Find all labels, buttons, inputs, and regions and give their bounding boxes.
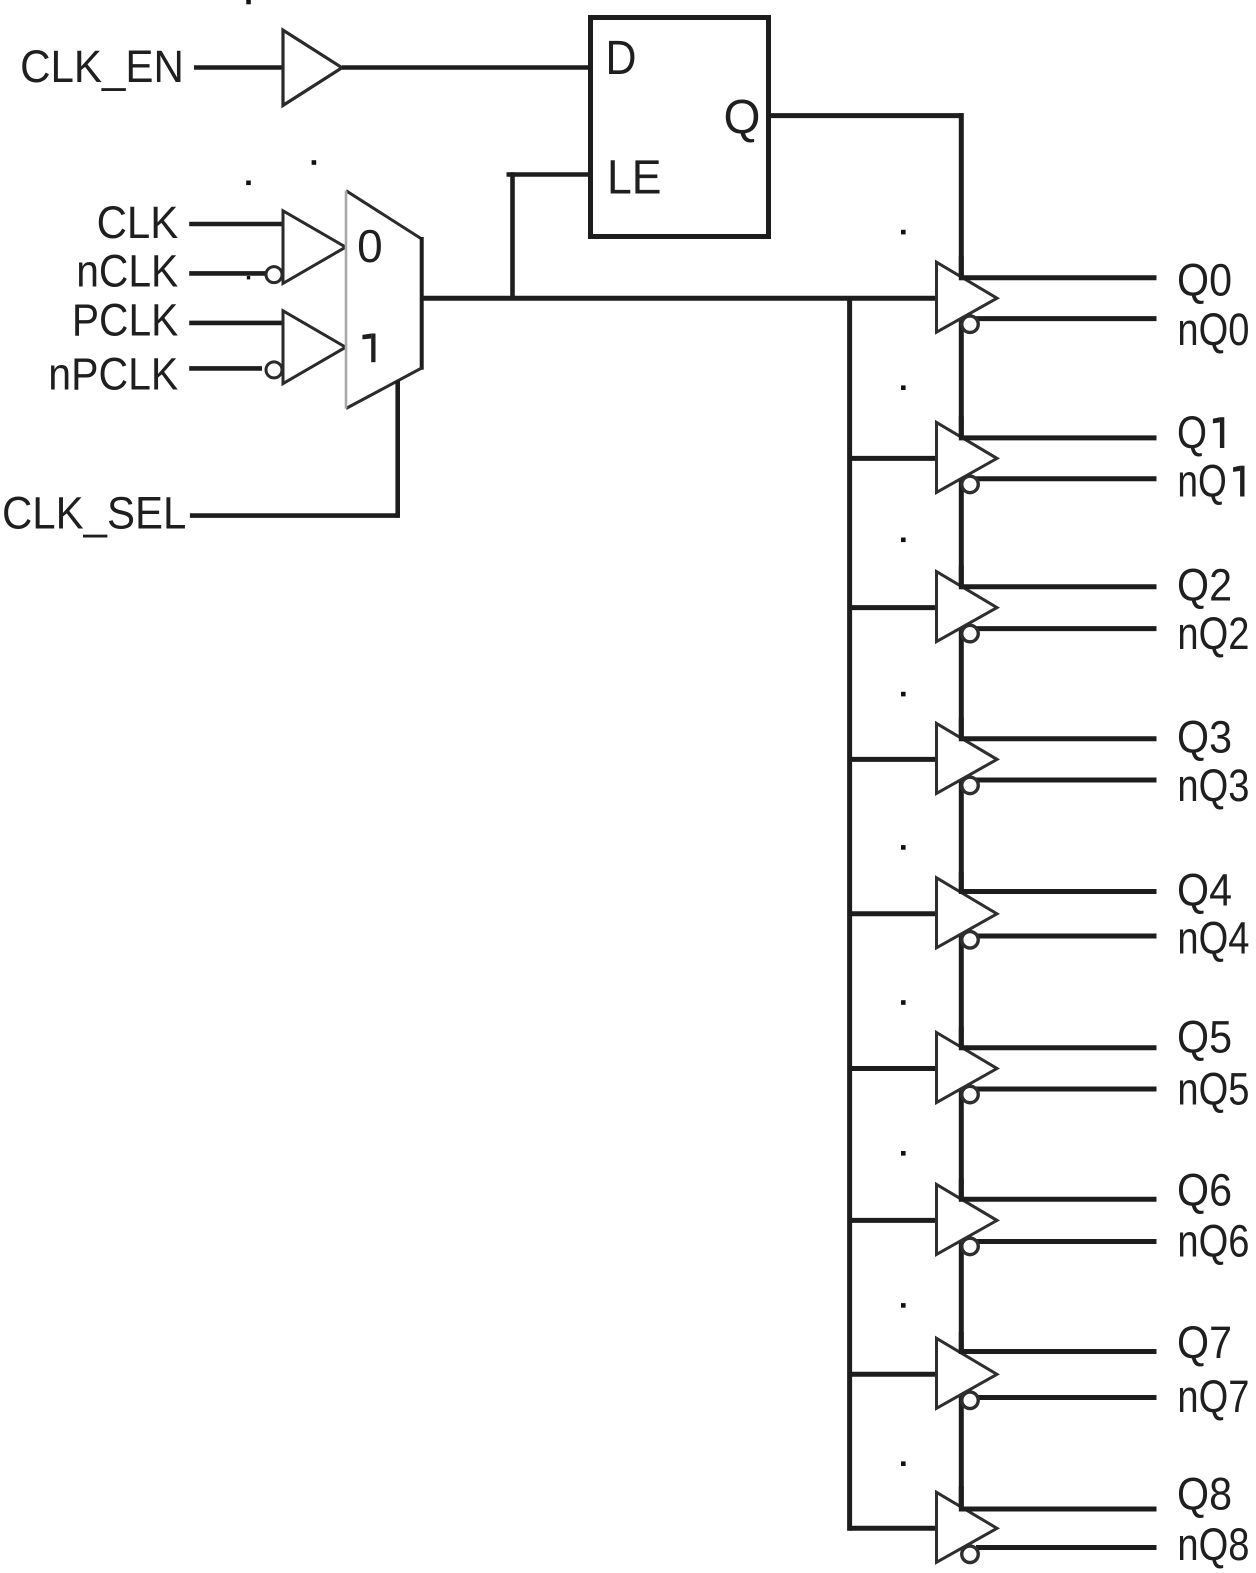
wire: Q6 output line xyxy=(964,1197,1157,1202)
svg-text:Q7: Q7 xyxy=(1177,1317,1232,1368)
output buffer U8 (Q5/nQ5 driver) xyxy=(937,1027,998,1103)
svg-text:Q3: Q3 xyxy=(1177,712,1232,763)
svg-text:nQ8: nQ8 xyxy=(1177,1519,1249,1570)
svg-text:nQ: nQ xyxy=(1177,456,1226,507)
inversion bubble on nQ0 output xyxy=(962,316,979,333)
wire: CLK_SEL horizontal xyxy=(190,513,398,518)
wire: input stub to output buffer U11 xyxy=(850,1526,937,1531)
output buffer U4 (Q1/nQ1 driver) xyxy=(937,416,998,492)
inversion bubble on nQ7 output xyxy=(962,1392,979,1409)
svg-text:nQ4: nQ4 xyxy=(1177,913,1249,964)
mux port label 1 xyxy=(362,334,375,363)
wire: input stub to output buffer U9 xyxy=(850,1218,937,1223)
svg-text:CLK: CLK xyxy=(97,197,179,248)
svg-text:D: D xyxy=(606,32,637,85)
wire: nQ4 output line xyxy=(976,934,1157,939)
wire: Q8 output line xyxy=(964,1507,1157,1512)
svg-text:Q: Q xyxy=(1177,407,1207,458)
svg-text:nQ5: nQ5 xyxy=(1177,1064,1249,1115)
wire: nQ8 output line xyxy=(976,1545,1157,1550)
buffer U1 (CLK_EN buffer) xyxy=(283,30,342,105)
wire: nQ1 output line xyxy=(976,476,1157,481)
wire: CLK input xyxy=(189,222,283,227)
wire: Q3 output line xyxy=(964,736,1157,741)
wire: left distribution bus xyxy=(847,298,852,1531)
svg-text:Q: Q xyxy=(724,92,761,145)
svg-text:Q0: Q0 xyxy=(1177,254,1232,305)
wire: nQ5 output line xyxy=(976,1087,1157,1092)
pin label Q1 xyxy=(1177,407,1224,458)
svg-text:CLK_EN: CLK_EN xyxy=(20,41,184,92)
wire: Q7 output line xyxy=(964,1349,1157,1354)
wire: Q2 output line xyxy=(964,584,1157,589)
inversion bubble on nQ4 output xyxy=(962,932,979,949)
output buffer U7 (Q4/nQ4 driver) xyxy=(937,872,998,948)
wire: input stub to output buffer U10 xyxy=(850,1372,937,1377)
wire: latch Q output xyxy=(769,113,964,118)
svg-text:Q8: Q8 xyxy=(1177,1469,1232,1520)
svg-text:Q6: Q6 xyxy=(1177,1165,1232,1216)
output buffer U9 (Q6/nQ6 driver) xyxy=(937,1178,998,1254)
wire: input stub to output buffer U5 xyxy=(850,605,937,610)
input buffer U0a (CLK/nCLK receiver) xyxy=(266,211,346,284)
svg-text:nQ6: nQ6 xyxy=(1177,1216,1249,1267)
input buffer U0b (PCLK/nPCLK receiver) xyxy=(266,311,346,384)
wire: nPCLK input xyxy=(189,366,262,371)
svg-text:Q4: Q4 xyxy=(1177,865,1232,916)
output buffer U3 (Q0/nQ0 driver) xyxy=(937,256,998,332)
wire: Q5 output line xyxy=(964,1045,1157,1050)
wire: input stub to output buffer U6 xyxy=(850,757,937,762)
wire: CLK_EN input xyxy=(194,65,283,70)
wire: input stub to output buffer U4 xyxy=(850,456,937,461)
svg-text:Q5: Q5 xyxy=(1177,1012,1232,1063)
inversion bubble on nQ1 output xyxy=(962,476,979,493)
wire: Q vertical distribution bus xyxy=(959,113,964,1508)
output buffer U6 (Q3/nQ3 driver) xyxy=(937,717,998,793)
svg-text:nQ7: nQ7 xyxy=(1177,1371,1249,1422)
svg-text:0: 0 xyxy=(357,220,383,272)
svg-text:nPCLK: nPCLK xyxy=(48,348,178,399)
wire: mux output clock line xyxy=(422,296,937,301)
wire: Q4 output line xyxy=(964,889,1157,894)
wire: PCLK input xyxy=(189,321,283,326)
svg-text:nCLK: nCLK xyxy=(76,245,178,296)
svg-text:CLK_SEL: CLK_SEL xyxy=(2,487,186,538)
wire: nQ0 output line xyxy=(976,316,1157,321)
svg-text:PCLK: PCLK xyxy=(72,295,178,346)
wire: CLK_SEL vertical to mux select xyxy=(395,381,400,518)
inversion bubble on nQ6 output xyxy=(962,1238,979,1255)
inversion bubble on nQ2 output xyxy=(962,625,979,642)
wire: LE horizontal xyxy=(507,172,591,177)
output buffer U10 (Q7/nQ7 driver) xyxy=(937,1332,998,1408)
mux M1 (clock select mux) xyxy=(346,191,422,409)
output buffer U11 (Q8/nQ8 driver) xyxy=(937,1486,998,1562)
wire: nQ7 output line xyxy=(976,1395,1157,1400)
svg-text:nQ2: nQ2 xyxy=(1177,608,1249,659)
output buffer U5 (Q2/nQ2 driver) xyxy=(937,566,998,642)
inversion bubble on nQ3 output xyxy=(962,777,979,794)
wire: LE vertical tap to clock line xyxy=(510,172,515,300)
wire: nQ3 output line xyxy=(976,778,1157,783)
wire: Q1 output line xyxy=(964,435,1157,440)
wire: Q0 output line xyxy=(964,275,1157,280)
wire: nCLK input xyxy=(189,271,266,276)
svg-text:nQ0: nQ0 xyxy=(1177,304,1249,355)
latch U2 (D latch) xyxy=(591,18,769,237)
pin label nQ1 xyxy=(1177,456,1244,507)
inversion bubble on nQ5 output xyxy=(962,1086,979,1103)
svg-text:nQ3: nQ3 xyxy=(1177,760,1249,811)
svg-text:Q2: Q2 xyxy=(1177,559,1232,610)
wire: input stub to output buffer U8 xyxy=(850,1066,937,1071)
wire: nQ6 output line xyxy=(976,1239,1157,1244)
wire: nQ2 output line xyxy=(976,626,1157,631)
wire: U1 output to latch D input xyxy=(342,65,590,70)
wire: input stub to output buffer U7 xyxy=(850,911,937,916)
inversion bubble on nQ8 output xyxy=(962,1546,979,1563)
svg-text:LE: LE xyxy=(607,151,662,204)
